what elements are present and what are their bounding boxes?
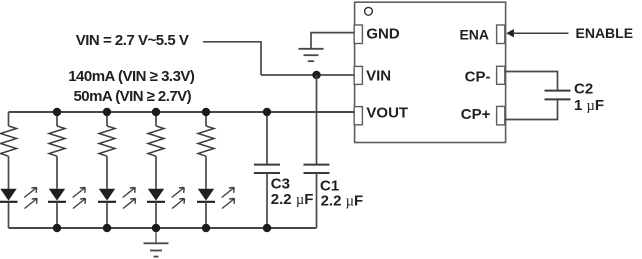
junction node: VOUT rail / branch 2 [53,108,61,116]
svg-text:GND: GND [366,25,400,42]
wire D3 to ground rail [106,202,108,228]
svg-text:C3: C3 [271,175,290,192]
capacitor C1 [304,75,330,228]
LED D3 [98,189,116,202]
svg-text:ENA: ENA [459,26,489,42]
resistor R1 [1,126,17,156]
svg-text:VIN = 2.7 V~5.5 V: VIN = 2.7 V~5.5 V [76,32,189,49]
ground (top, near GND pin) [298,49,323,61]
wire VOUT rail [9,111,355,113]
pin GND box [354,25,362,44]
LED D2 [48,189,66,202]
wire VOUT rail to R5 [205,112,207,126]
junction node: VOUT rail / branch 3 [103,108,111,116]
junction node: ground rail / C3 [263,224,271,232]
wire from VIN label to VIN line [203,42,261,75]
LED D2 emission arrows [73,188,86,209]
IC U1 charge-pump LED driver body [355,2,506,142]
pin VIN box [354,66,362,84]
pin ENA box [497,25,505,44]
LED D5 emission arrows [222,188,235,209]
wire R2 to D2 [56,156,58,189]
wire VIN line to VIN pin [261,74,354,76]
svg-text:ENABLE: ENABLE [576,25,634,41]
wire ENABLE [514,32,569,34]
LED D4 [147,189,165,202]
wire D4 to ground rail [155,202,157,228]
LED D3 emission arrows [123,188,136,209]
junction node: VOUT rail / branch 4 [152,108,160,116]
svg-text:VIN: VIN [366,68,391,85]
pin CP+ box [497,106,505,125]
svg-text:140mA (VIN ≥ 3.3V): 140mA (VIN ≥ 3.3V) [68,68,195,85]
junction node: ground rail / branch 2 [53,224,61,232]
wire D5 to ground rail [205,202,207,228]
ground (bottom rail) [144,228,169,257]
wire GND pin to ground [311,33,354,49]
wire VOUT rail to R4 [155,112,157,126]
svg-text:CP-: CP- [465,69,491,86]
pin CP- box [497,66,505,84]
capacitor C2 + wires to CP-/CP+ [505,72,571,120]
svg-text:C2: C2 [574,81,593,98]
resistor R2 [49,126,65,156]
junction node: ground rail / branch 3 [103,224,111,232]
svg-text:2.2 µF: 2.2 µF [321,193,364,210]
svg-text:50mA (VIN ≥ 2.7V): 50mA (VIN ≥ 2.7V) [74,88,192,105]
pin VOUT box [354,107,362,125]
LED D5 [197,189,215,202]
resistor R5 [198,126,214,156]
LED D4 emission arrows [172,188,185,209]
junction node: VOUT rail / branch 5 [202,108,210,116]
LED D1 emission arrows [24,188,37,209]
svg-text:1 µF: 1 µF [574,97,604,114]
junction node: VIN wire / C1 [312,71,320,79]
wire D1 to ground rail [8,202,10,228]
wire VOUT rail to R3 [106,112,108,126]
svg-text:CP+: CP+ [461,106,491,123]
resistor R4 [148,126,164,156]
junction node: ground rail / branch 4 [152,224,160,232]
junction node: VOUT rail / C3 [263,108,271,116]
wire R1 to D1 [8,156,10,189]
wire R3 to D3 [106,156,108,189]
wire D2 to ground rail [56,202,58,228]
wire ground rail (bottom) [9,227,317,229]
wire VOUT rail to R2 [56,112,58,126]
junction node: ground rail / branch 5 [202,224,210,232]
svg-text:2.2 µF: 2.2 µF [271,191,314,208]
pin 1 marker circle on U1 [365,7,373,15]
wire R4 to D4 [155,156,157,189]
LED D1 [0,189,18,202]
capacitor C3 [254,112,280,228]
ENABLE arrow into ENA [506,29,514,37]
wire R5 to D5 [205,156,207,189]
resistor R3 [99,126,115,156]
svg-text:VOUT: VOUT [366,105,408,122]
wire VOUT rail to R1 [8,112,10,126]
